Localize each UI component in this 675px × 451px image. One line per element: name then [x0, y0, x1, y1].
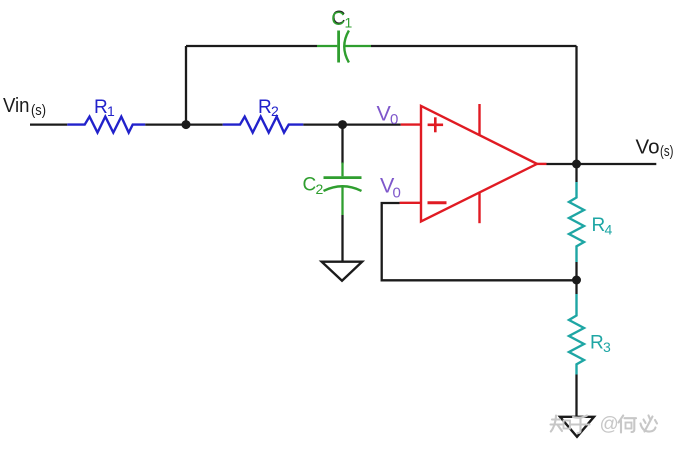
svg-text:1: 1	[345, 15, 353, 31]
svg-text:Vin: Vin	[3, 94, 30, 117]
wire node A up to top feedback rail	[185, 46, 187, 125]
wire op-amp output to Vo	[547, 163, 657, 165]
svg-text:2: 2	[271, 103, 279, 119]
label C2	[303, 175, 324, 198]
svg-text:0: 0	[390, 111, 398, 128]
label R2	[258, 97, 279, 119]
resistor R3	[569, 294, 584, 375]
resistor R2	[223, 117, 304, 133]
wire node C down to R3	[575, 280, 577, 294]
svg-text:C: C	[303, 175, 317, 196]
svg-text:@: @	[600, 414, 619, 435]
svg-text:R: R	[94, 97, 108, 118]
op-amp plus symbol	[428, 117, 444, 132]
svg-text:R: R	[592, 215, 606, 236]
ground below C2	[322, 262, 362, 281]
svg-text:1: 1	[107, 103, 115, 119]
op-amp output lead	[537, 163, 547, 165]
op-amp minus symbol	[428, 201, 447, 204]
wire top rail right of C1	[371, 45, 577, 47]
label C1	[331, 8, 352, 31]
op-amp noninverting input lead	[401, 123, 421, 125]
wire input to R1	[30, 123, 67, 125]
label R4	[592, 215, 613, 238]
node C junction R4/R3/feedback	[572, 276, 581, 285]
ground below R3	[560, 417, 594, 437]
svg-text:(s): (s)	[660, 144, 674, 160]
label Vin(s)	[3, 94, 46, 119]
op-amp positive supply pin	[478, 104, 480, 135]
wire C2 to ground	[341, 215, 343, 261]
svg-text:Vo: Vo	[636, 136, 660, 159]
label Vo(s)	[636, 136, 674, 161]
wire top rail down to output node	[575, 46, 577, 164]
wire top rail left of C1	[186, 45, 317, 47]
svg-text:R: R	[258, 97, 272, 118]
output node junction	[572, 160, 581, 169]
wire feedback from node C to inverting input	[382, 203, 577, 280]
svg-text:0: 0	[393, 185, 401, 202]
svg-text:2: 2	[316, 181, 324, 197]
wire R4 to node C	[575, 262, 577, 280]
op-amp negative supply pin	[478, 193, 480, 224]
op-amp inverting input lead	[400, 202, 421, 204]
wire output node down to R4	[575, 164, 577, 182]
capacitor C2	[324, 163, 362, 216]
label V0 at inverting input	[380, 173, 401, 201]
wire R1 to R2 through node A	[145, 123, 222, 125]
capacitor C1	[317, 31, 371, 63]
resistor R1	[67, 117, 145, 133]
op-amp U1 triangle	[421, 106, 537, 222]
wire R3 to ground	[575, 375, 577, 417]
node B junction R2/C2/op-amp	[338, 120, 347, 129]
svg-text:4: 4	[605, 222, 613, 238]
label R1	[94, 97, 115, 119]
wire R2 to op-amp noninverting input through node B	[303, 123, 400, 125]
svg-text:(s): (s)	[31, 103, 46, 119]
label R3	[590, 333, 611, 356]
label V0 at noninverting input	[377, 101, 399, 128]
svg-text:C: C	[331, 9, 345, 30]
svg-text:R: R	[590, 333, 604, 354]
svg-text:3: 3	[603, 339, 611, 355]
wire C2 from node B down	[341, 125, 343, 164]
resistor R4	[569, 182, 584, 262]
node A junction R1/R2/C1	[182, 120, 191, 129]
watermark text 知乎 @何必	[551, 416, 658, 434]
